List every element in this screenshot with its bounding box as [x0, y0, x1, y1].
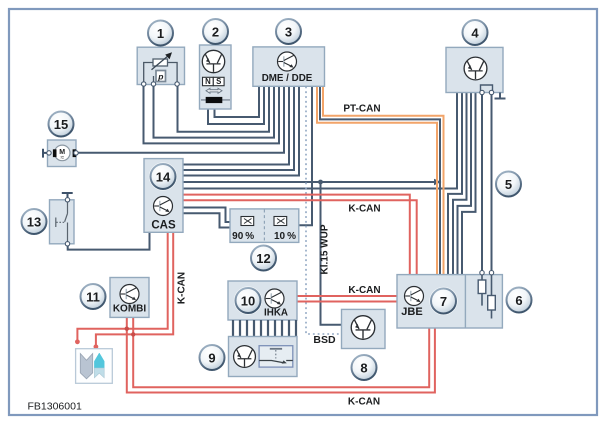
- arrowhead on terminal 15 line: [434, 179, 442, 185]
- instrument cluster KOMBI (module 11): [110, 278, 149, 318]
- junction node K-CAN at KOMBI drop B: [131, 332, 135, 336]
- svg-text:K-CAN: K-CAN: [348, 285, 380, 296]
- wire module4 pin5 to JBE: [462, 93, 476, 275]
- node item-9 callout: [200, 345, 225, 370]
- wire module4 connector pin to resistor R2: [491, 94, 493, 272]
- svg-text:FB1306001: FB1306001: [28, 401, 82, 413]
- node item-7 callout: [429, 287, 457, 315]
- svg-text:p: p: [157, 72, 163, 82]
- wire module4 pin4 to JBE: [458, 93, 472, 275]
- wire module4 connector pin to resistor R1: [481, 94, 483, 272]
- resistor R2 in module 6: [488, 271, 496, 319]
- svg-text:KOMBI: KOMBI: [113, 304, 147, 315]
- svg-text:7: 7: [440, 294, 447, 309]
- node item-4 callout: [463, 20, 488, 45]
- ground at module 4: [495, 93, 506, 99]
- control unit DME / DDE (module 3): [253, 47, 325, 86]
- svg-text:11: 11: [86, 289, 100, 304]
- svg-text:IHKA: IHKA: [264, 308, 288, 319]
- svg-text:8: 8: [360, 360, 367, 375]
- wire box1 middle terminal to DME pin4: [154, 85, 275, 138]
- blower output stage module 9: [229, 337, 298, 377]
- wire module4 pin2 to JBE: [448, 93, 462, 275]
- node item-10 callout: [234, 286, 262, 314]
- svg-text:CAS: CAS: [151, 220, 176, 232]
- node item-2 callout: [203, 19, 228, 44]
- node K-CAN stub end B: [94, 344, 99, 349]
- svg-text:5: 5: [505, 177, 512, 192]
- svg-text:DME / DDE: DME / DDE: [262, 73, 313, 84]
- svg-text:BSD: BSD: [313, 334, 336, 346]
- svg-text:6: 6: [515, 293, 522, 308]
- svg-text:S: S: [216, 77, 221, 86]
- resistor R1 in module 6: [478, 271, 486, 306]
- node item-11 callout: [81, 284, 106, 309]
- wire K-CAN KOMBI to JBE bottom line A: [133, 317, 429, 387]
- node item-13 callout: [22, 209, 47, 234]
- wire PT-CAN orange lower: [317, 87, 437, 275]
- wire PT-CAN core: [320, 87, 440, 275]
- wire motor M15 to DME pin6: [77, 87, 284, 153]
- wire DME pin7 to CAS: [183, 87, 289, 165]
- svg-text:9: 9: [208, 350, 215, 365]
- wire K-CAN CAS to JBE top line B: [183, 200, 417, 274]
- wire CAS terminal 15 line with arrow: [183, 181, 437, 183]
- control unit module 8: [342, 309, 386, 348]
- svg-text:12: 12: [256, 251, 270, 266]
- wire box2 left pin to DME pin2: [208, 87, 264, 125]
- svg-text:JBE: JBE: [401, 306, 422, 318]
- junction node K-CAN at KOMBI drop A: [125, 327, 129, 331]
- svg-text:90 %: 90 %: [232, 231, 254, 242]
- node K-CAN stub end A: [75, 339, 80, 344]
- svg-text:1: 1: [157, 26, 164, 41]
- wire PT-CAN orange upper: [323, 87, 444, 275]
- wire CAS to 10% cell: [183, 213, 231, 227]
- svg-text:≈: ≈: [60, 155, 64, 162]
- wire DME pin8 to CAS: [183, 87, 294, 171]
- svg-text:K-CAN: K-CAN: [348, 204, 380, 215]
- sensor module 2 (hall/N-S sensor): [200, 45, 232, 109]
- wire CAS to module 4: [183, 93, 457, 189]
- wire CAS bottom to switch 13: [68, 232, 150, 249]
- node item-6 callout: [507, 288, 532, 313]
- wire K-CAN KOMBI to JBE bottom line B: [127, 317, 435, 392]
- wire box1 right terminal to DME pin3: [178, 85, 270, 132]
- svg-text:Kl.15 WUP: Kl.15 WUP: [320, 224, 331, 274]
- svg-text:15: 15: [54, 117, 68, 132]
- svg-text:PT-CAN: PT-CAN: [343, 104, 380, 115]
- svg-text:13: 13: [27, 214, 41, 229]
- node item-14 callout: [149, 162, 177, 190]
- node item-8 callout: [352, 355, 377, 380]
- wire module4 pin3 to JBE: [453, 93, 467, 275]
- wire DME pin9 to CAS: [183, 87, 299, 176]
- terminal control box 90%/10% (item 12): [230, 209, 299, 243]
- wire K-CAN CAS to JBE top line A: [183, 195, 410, 275]
- wire KL.15 WUP from junction to box 8: [321, 182, 342, 325]
- wire box1 left terminal to DME pin5: [144, 85, 280, 143]
- electric motor module 15: [43, 140, 78, 167]
- wire DME pin11 to 90%/10% box right side: [298, 87, 312, 226]
- svg-text:4: 4: [471, 25, 479, 40]
- node item-15 callout: [49, 112, 74, 137]
- wire BSD dotted from DME to box 8: [306, 87, 342, 335]
- junction box electronics JBE (module 7) and power distributor (module 6): [397, 275, 502, 328]
- control unit CAS (module 14): [144, 159, 183, 233]
- svg-text:N: N: [205, 77, 211, 86]
- junction node KL.15 WUP: [318, 180, 323, 185]
- wire K-CAN CAS down-left line A: [77, 232, 167, 340]
- node item-5 callout: [496, 172, 521, 197]
- wire K-CAN IHKA to JBE line A: [297, 295, 397, 297]
- node item-1 callout: [148, 21, 173, 46]
- node item-12 callout: [251, 246, 276, 271]
- svg-text:2: 2: [212, 24, 219, 39]
- switch module 13: [50, 193, 75, 246]
- wire box2 right pin to DME pin1: [215, 87, 260, 118]
- wire K-CAN CAS down-left line B: [96, 232, 173, 345]
- svg-text:K-CAN: K-CAN: [348, 397, 380, 408]
- sensor module 1 (potentiometer): [137, 47, 184, 86]
- wire CAS to 90% cell: [183, 208, 231, 223]
- svg-text:14: 14: [156, 169, 171, 184]
- svg-text:10 %: 10 %: [274, 231, 296, 242]
- node item-3 callout: [276, 19, 301, 44]
- control unit IHKA (module 10): [228, 281, 297, 320]
- mechanical connection comb IHKA to module 9: [233, 320, 296, 337]
- svg-text:K-CAN: K-CAN: [177, 272, 188, 304]
- svg-text:3: 3: [285, 24, 292, 39]
- svg-text:10: 10: [241, 293, 255, 308]
- wire K-CAN IHKA to JBE line B: [297, 301, 397, 303]
- control unit module 4: [446, 47, 503, 94]
- gearshift indicator icon: [76, 349, 113, 384]
